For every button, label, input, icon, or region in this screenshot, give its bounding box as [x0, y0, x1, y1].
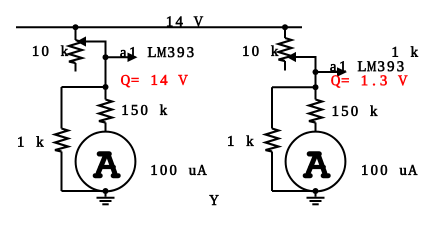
value label "1 k" (right) — [228, 136, 253, 146]
junction: left ground node — [103, 188, 109, 194]
junction: right comparator input node — [313, 69, 319, 75]
junction: left pot tap on 14V rail — [73, 24, 79, 30]
wire: +14V supply rail — [16, 26, 302, 28]
net label "14 V" — [167, 16, 203, 26]
wire: left wiper to node a1 — [105, 41, 107, 100]
value label "100 uA" (right meter) — [362, 165, 417, 175]
junction: right pot tap on 14V rail — [282, 24, 288, 30]
arrow: to comparator input (left) — [106, 52, 138, 62]
label "a1 LM393" (left comparator) — [120, 47, 193, 57]
value label "10 k" (left pot) — [33, 46, 68, 56]
voltage annotation "Q= 14 V" (red) — [121, 75, 187, 87]
ground (right) — [307, 191, 325, 204]
wiper arrow of left pot — [77, 36, 106, 46]
label "a1 LM393" (right comparator) — [330, 61, 403, 71]
junction: right divider node — [313, 84, 319, 90]
value label "150 k" (right) — [333, 106, 378, 116]
voltage annotation "Q= 1.3 V" (red) — [331, 75, 407, 87]
ammeter M1 (left) — [76, 132, 136, 192]
potentiometer 10 k (left) — [69, 27, 82, 71]
resistor 150 k (right) — [309, 100, 322, 132]
ground (left) — [97, 191, 115, 204]
value label "1 k" (top right) — [393, 46, 418, 56]
wire: left bottom return — [62, 190, 106, 192]
wire: right wiper to node a1 — [315, 56, 317, 100]
potentiometer 10 k (right) — [279, 27, 292, 70]
ammeter M2 (right) — [286, 132, 346, 192]
resistor 150 k (left) — [99, 100, 112, 132]
value label "150 k" (left) — [123, 105, 168, 115]
wiper arrow of right pot — [287, 52, 316, 62]
value label "1 k" (left) — [18, 136, 43, 146]
resistor 1 k (left) — [55, 87, 68, 191]
junction: right ground node — [313, 188, 319, 194]
resistor 1 k (right) — [266, 87, 279, 191]
value label "10 k" (right pot) — [243, 46, 278, 56]
net label "Y" — [210, 195, 219, 205]
value label "100 uA" (left meter) — [152, 165, 207, 175]
wire: right node to 1 k branch — [272, 86, 316, 88]
wire: left node to 1 k branch — [62, 86, 106, 88]
wire: right bottom return — [272, 190, 316, 192]
junction: left comparator input node — [103, 54, 109, 60]
arrow: to comparator input (right) — [316, 67, 348, 77]
junction: left divider node — [103, 84, 109, 90]
